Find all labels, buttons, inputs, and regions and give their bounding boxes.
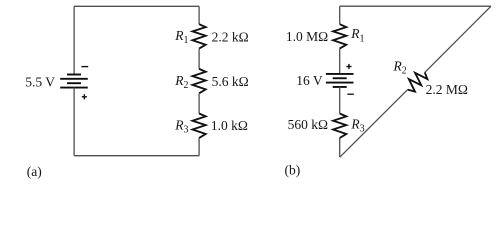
svg-text:16 V: 16 V — [296, 73, 323, 88]
svg-text:(b): (b) — [285, 162, 301, 177]
resistor R3 (a) 1.0 k ohm — [193, 114, 206, 138]
svg-text:2.2 kΩ: 2.2 kΩ — [212, 29, 249, 44]
svg-text:R1: R1 — [174, 28, 188, 46]
wire: left rail between battery and R3 (b) — [339, 87, 341, 114]
svg-text:(a): (a) — [27, 164, 42, 179]
svg-text:R1: R1 — [350, 26, 364, 44]
svg-text:5.5 V: 5.5 V — [25, 75, 55, 90]
wire: left rail lower (a), battery bottom lead — [73, 88, 75, 156]
label: minus sign of battery (b) — [347, 93, 353, 95]
resistor R2 (a) 5.6 k ohm — [193, 69, 206, 93]
svg-text:1.0 kΩ: 1.0 kΩ — [211, 118, 248, 133]
svg-text:2.2 MΩ: 2.2 MΩ — [426, 82, 468, 97]
wire: right rail top segment (a) — [198, 6, 200, 24]
resistor R3 (b) 560 k ohm — [333, 114, 346, 138]
label: plus sign of battery (a) — [82, 94, 87, 99]
battery VS 5.5 V (a) — [60, 75, 88, 88]
svg-text:1.0 MΩ: 1.0 MΩ — [286, 29, 328, 44]
wire: bottom rail (a) — [74, 155, 199, 157]
wire: left rail upper (a), battery top lead — [73, 6, 75, 74]
label: plus sign of battery (b) — [346, 64, 351, 69]
resistor R1 (b) 1.0 M ohm — [333, 24, 346, 48]
wire: left rail bottom segment (b) — [339, 138, 341, 157]
label: minus sign of battery (a) — [81, 66, 88, 68]
svg-text:560 kΩ: 560 kΩ — [288, 117, 328, 132]
wire: left rail top segment (b) — [339, 6, 341, 24]
wire: right rail between R1 and R2 (a) — [198, 49, 200, 69]
wire: right rail bottom segment (a) — [198, 138, 200, 156]
svg-text:R2: R2 — [393, 59, 407, 77]
svg-text:5.6 kΩ: 5.6 kΩ — [212, 74, 249, 89]
wire: diagonal lower segment (b), from R2 to bottom vertex — [340, 90, 408, 158]
resistor R1 (a) 2.2 k ohm — [193, 24, 206, 48]
wire: left rail between R1 and battery (b) — [339, 49, 341, 74]
battery VS 16 V (b) — [326, 74, 354, 87]
wire: top rail (b) — [340, 5, 491, 7]
svg-text:R2: R2 — [174, 73, 188, 91]
wire: top rail (a) — [74, 5, 199, 7]
svg-text:R3: R3 — [174, 117, 188, 135]
resistor R2 (b) 2.2 M ohm, on diagonal — [403, 68, 430, 95]
wire: diagonal upper segment (b), from top-right corner to R2 — [425, 6, 491, 72]
wire: right rail between R2 and R3 (a) — [198, 93, 200, 113]
svg-text:R3: R3 — [350, 116, 364, 134]
